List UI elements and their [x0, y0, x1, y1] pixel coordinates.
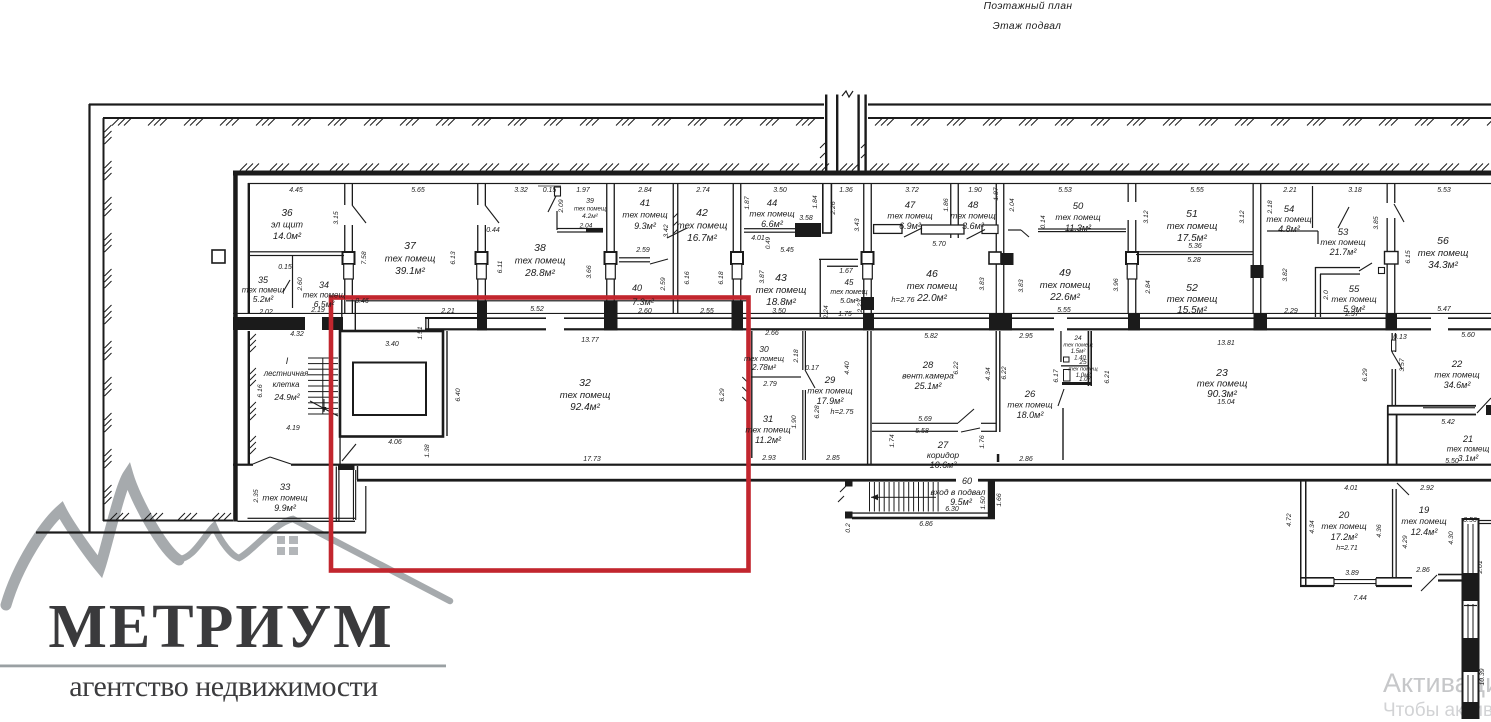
room 41 shelf — [619, 257, 668, 264]
svg-text:34.6м²: 34.6м² — [1444, 380, 1472, 390]
left wall hatch — [250, 334, 256, 454]
svg-text:тех помещ: тех помещ — [1320, 237, 1365, 247]
svg-text:6.40: 6.40 — [455, 388, 462, 401]
svg-text:тех помещ: тех помещ — [1266, 214, 1311, 224]
svg-text:5.55: 5.55 — [1057, 307, 1071, 314]
svg-text:6.29: 6.29 — [719, 388, 726, 401]
svg-text:17.5м²: 17.5м² — [1177, 233, 1207, 244]
svg-text:тех помещ: тех помещ — [560, 390, 611, 401]
door below shaft — [339, 437, 356, 464]
svg-text:тех помещ: тех помещ — [1007, 400, 1052, 410]
svg-text:38: 38 — [534, 242, 546, 254]
svg-text:5.45: 5.45 — [780, 247, 794, 254]
svg-text:18.0м²: 18.0м² — [1017, 410, 1045, 420]
stairs — [308, 358, 338, 417]
door 38 — [485, 205, 499, 223]
svg-text:56: 56 — [1437, 235, 1449, 247]
svg-text:21.7м²: 21.7м² — [1329, 247, 1358, 257]
svg-text:тех помещ: тех помещ — [756, 285, 807, 296]
svg-text:46: 46 — [926, 268, 938, 280]
svg-text:12.4м²: 12.4м² — [1411, 527, 1439, 537]
svg-text:4.01: 4.01 — [751, 235, 765, 242]
svg-text:2.26: 2.26 — [830, 201, 837, 215]
svg-text:0.46: 0.46 — [355, 298, 369, 305]
svg-text:2.78м²: 2.78м² — [751, 363, 776, 372]
room 51 label — [1167, 208, 1218, 244]
svg-text:2.21: 2.21 — [1282, 187, 1297, 194]
svg-text:6.6м²: 6.6м² — [761, 219, 784, 229]
svg-text:2.35: 2.35 — [253, 489, 260, 503]
svg-text:3.85: 3.85 — [1373, 216, 1380, 229]
svg-text:эл щит: эл щит — [271, 220, 303, 230]
svg-text:тех помещ: тех помещ — [574, 207, 606, 213]
room 30/31 divider — [751, 376, 801, 377]
svg-text:3.1м²: 3.1м² — [1458, 453, 1480, 463]
svg-text:3.82: 3.82 — [1282, 268, 1289, 281]
room 44 label — [749, 198, 794, 229]
svg-text:5.2м²: 5.2м² — [253, 294, 275, 304]
svg-text:6.30: 6.30 — [945, 506, 959, 513]
svg-text:2.92: 2.92 — [1419, 485, 1434, 492]
svg-text:13.81: 13.81 — [1217, 340, 1235, 347]
svg-text:34.3м²: 34.3м² — [1428, 260, 1458, 271]
svg-text:41: 41 — [640, 198, 651, 209]
svg-text:0.15: 0.15 — [278, 264, 292, 271]
room 55 walls — [1315, 263, 1385, 317]
svg-text:0.56: 0.56 — [1463, 517, 1477, 524]
svg-text:10.39: 10.39 — [1479, 668, 1486, 685]
door room 33 — [253, 457, 291, 464]
room 39 label — [574, 198, 606, 220]
room 26 label — [1007, 389, 1052, 420]
svg-text:тех помещ: тех помещ — [1434, 370, 1479, 380]
svg-text:21: 21 — [1462, 434, 1473, 444]
room 47/48 partition — [874, 225, 998, 239]
svg-text:2.59: 2.59 — [660, 277, 667, 291]
vent shaft 44/47 — [822, 184, 832, 234]
wall 42/44 — [731, 184, 743, 314]
svg-text:15.5м²: 15.5м² — [1177, 305, 1207, 316]
room 33 walls — [238, 465, 367, 532]
svg-text:1.76: 1.76 — [979, 435, 986, 448]
svg-text:2.74: 2.74 — [695, 187, 710, 194]
svg-text:6.28: 6.28 — [814, 405, 821, 418]
svg-text:6.22: 6.22 — [953, 361, 960, 374]
svg-text:3.42: 3.42 — [663, 224, 670, 237]
svg-text:4.34: 4.34 — [985, 367, 992, 380]
svg-text:тех помещ: тех помещ — [1418, 248, 1469, 259]
svg-text:17.73: 17.73 — [583, 456, 601, 463]
svg-text:тех помещ: тех помещ — [807, 386, 852, 396]
svg-text:1.66: 1.66 — [996, 493, 1003, 506]
svg-text:7.58: 7.58 — [361, 251, 368, 264]
svg-text:2.55: 2.55 — [699, 308, 714, 315]
svg-text:33: 33 — [280, 482, 291, 493]
room 19 label — [1401, 505, 1446, 537]
svg-text:3.6м²: 3.6м² — [962, 221, 985, 231]
svg-text:6.18: 6.18 — [718, 271, 725, 284]
elevator shaft — [340, 331, 448, 437]
svg-text:6.21: 6.21 — [1104, 370, 1111, 383]
wall 22/21 L-wall — [1387, 398, 1491, 464]
svg-text:6.11: 6.11 — [497, 260, 504, 273]
svg-text:2.60: 2.60 — [297, 277, 304, 291]
svg-text:Этаж подвал: Этаж подвал — [993, 21, 1062, 32]
svg-text:19: 19 — [1419, 505, 1430, 516]
svg-text:6.29: 6.29 — [1362, 368, 1369, 381]
svg-text:2.18: 2.18 — [793, 349, 800, 363]
svg-text:0.49: 0.49 — [765, 236, 772, 249]
top band bottom wall - thin face line — [233, 313, 1491, 314]
svg-text:26: 26 — [1024, 389, 1036, 400]
stairwell top wall — [237, 296, 356, 358]
svg-text:28: 28 — [922, 360, 934, 371]
room 40 strip top wall — [346, 300, 750, 301]
svg-text:35: 35 — [258, 275, 269, 285]
svg-text:тех помещ: тех помещ — [1331, 294, 1376, 304]
svg-text:2.93: 2.93 — [761, 455, 776, 462]
wall 29/28 — [867, 331, 872, 464]
svg-text:5.55: 5.55 — [1190, 187, 1204, 194]
watermark — [1383, 668, 1491, 699]
wall 51/54 — [1251, 184, 1264, 314]
svg-text:тех помещ: тех помещ — [677, 221, 728, 232]
wall 48/50 — [996, 184, 1005, 314]
stairwell label — [263, 356, 309, 402]
logo rule — [0, 665, 446, 668]
svg-text:22: 22 — [1451, 359, 1463, 370]
building top wall — [233, 171, 1491, 185]
svg-text:2.66: 2.66 — [764, 330, 779, 337]
svg-text:31: 31 — [763, 414, 774, 425]
svg-text:3.83: 3.83 — [1018, 279, 1025, 292]
wall 54/53 — [1387, 184, 1396, 314]
dimension labels — [253, 186, 1486, 686]
svg-text:15.04: 15.04 — [1217, 399, 1235, 406]
hatch room32 right — [742, 377, 747, 402]
logo windows — [277, 536, 298, 555]
wall 36/37 — [343, 184, 355, 314]
svg-text:тех помещ: тех помещ — [749, 209, 794, 219]
room 31 label — [745, 414, 790, 445]
svg-text:7.3м²: 7.3м² — [632, 297, 655, 307]
svg-text:37: 37 — [404, 240, 417, 252]
site boundary hatch ticks — [105, 119, 1491, 521]
svg-text:2.79: 2.79 — [762, 381, 777, 388]
svg-text:4.06: 4.06 — [388, 439, 402, 446]
room 27 label — [927, 440, 960, 470]
svg-text:2.84: 2.84 — [1145, 280, 1152, 294]
top band bottom wall - band — [233, 301, 1491, 331]
room 47 label — [887, 200, 932, 231]
svg-text:5.70: 5.70 — [932, 241, 946, 248]
svg-text:клетка: клетка — [273, 380, 301, 389]
svg-text:3.66: 3.66 — [586, 265, 593, 278]
svg-text:17.9м²: 17.9м² — [817, 396, 845, 406]
room 53 label — [1320, 227, 1365, 257]
svg-text:1.90: 1.90 — [968, 187, 982, 194]
room 20 label — [1321, 510, 1366, 542]
svg-text:13.77: 13.77 — [581, 337, 600, 344]
svg-text:4.8м²: 4.8м² — [1278, 224, 1301, 234]
svg-text:тех помещ: тех помещ — [622, 210, 667, 220]
wall 28/26 — [961, 331, 1001, 462]
svg-text:1.86: 1.86 — [943, 198, 950, 211]
svg-text:тех помещ: тех помещ — [744, 354, 785, 363]
svg-text:2.18: 2.18 — [1267, 200, 1274, 214]
room 52 label — [1167, 282, 1218, 316]
svg-text:3.12: 3.12 — [1239, 210, 1246, 223]
svg-text:2.04: 2.04 — [1009, 198, 1016, 212]
svg-text:47: 47 — [905, 200, 916, 211]
svg-text:1.67: 1.67 — [839, 268, 854, 275]
chimney duct — [820, 91, 868, 171]
room 45 label — [830, 278, 867, 305]
svg-text:6.9м²: 6.9м² — [899, 221, 922, 231]
room 46 label — [907, 268, 958, 304]
svg-text:4.72: 4.72 — [1286, 513, 1293, 526]
svg-text:h=2.71: h=2.71 — [1336, 545, 1358, 552]
svg-text:1.5м²: 1.5м² — [1071, 349, 1086, 355]
svg-text:22.0м²: 22.0м² — [916, 293, 947, 304]
wall 50/51 — [1126, 184, 1138, 314]
room 60 label — [931, 476, 986, 507]
svg-text:1.36: 1.36 — [839, 187, 853, 194]
svg-text:лестничная: лестничная — [263, 369, 309, 378]
svg-text:5.82: 5.82 — [924, 333, 938, 340]
svg-text:0.13: 0.13 — [1393, 334, 1407, 341]
svg-text:4.34: 4.34 — [1309, 520, 1316, 533]
svg-text:29: 29 — [824, 375, 836, 386]
door 35 — [283, 280, 290, 292]
svg-text:51: 51 — [1186, 208, 1198, 220]
svg-text:24: 24 — [1073, 335, 1082, 342]
svg-text:4.29: 4.29 — [1402, 535, 1409, 548]
svg-text:1.87: 1.87 — [993, 187, 1000, 200]
svg-text:тех помещ: тех помещ — [1055, 212, 1100, 222]
svg-text:5.28: 5.28 — [1187, 257, 1201, 264]
svg-text:45: 45 — [845, 278, 854, 287]
corridor 27 top walls — [872, 409, 996, 432]
svg-text:42: 42 — [696, 207, 708, 219]
svg-text:3.50: 3.50 — [773, 187, 787, 194]
svg-text:2.86: 2.86 — [1018, 456, 1033, 463]
wall 37/38 — [476, 184, 488, 314]
svg-text:20: 20 — [1338, 510, 1350, 521]
svg-text:0.44: 0.44 — [486, 227, 500, 234]
room 34 label — [303, 280, 346, 309]
corridor bottom wall — [233, 464, 1491, 482]
svg-text:90.3м²: 90.3м² — [1207, 389, 1237, 400]
svg-text:30: 30 — [759, 344, 769, 354]
room 24 label — [1063, 335, 1093, 355]
svg-text:5.60: 5.60 — [1461, 332, 1475, 339]
room 25 label — [1068, 359, 1098, 379]
svg-text:вент.камера: вент.камера — [902, 371, 954, 381]
svg-text:5.52: 5.52 — [530, 306, 544, 313]
svg-text:5.42: 5.42 — [1441, 419, 1455, 426]
svg-text:24.9м²: 24.9м² — [273, 392, 300, 402]
logo roof — [175, 519, 450, 601]
svg-text:тех помещ: тех помещ — [907, 281, 958, 292]
svg-text:2.85: 2.85 — [825, 455, 840, 462]
svg-text:0.2: 0.2 — [845, 523, 852, 533]
room 21 label — [1447, 434, 1490, 463]
room 55 label — [1331, 284, 1376, 314]
room 29 label — [807, 375, 852, 406]
svg-text:48: 48 — [968, 200, 979, 211]
svg-text:36: 36 — [281, 208, 293, 219]
svg-text:5.58: 5.58 — [915, 428, 929, 435]
svg-text:тех помещ: тех помещ — [745, 425, 790, 435]
room 51/52 divider — [1136, 251, 1253, 255]
svg-text:4.2м²: 4.2м² — [582, 213, 598, 220]
svg-text:11.2м²: 11.2м² — [755, 435, 782, 445]
door 37 — [352, 205, 366, 223]
svg-text:14.0м²: 14.0м² — [273, 231, 302, 242]
room 40 label — [632, 283, 655, 307]
site boundary inner line — [103, 117, 1491, 522]
svg-text:6.16: 6.16 — [257, 384, 264, 397]
room 56 label — [1418, 235, 1469, 271]
svg-text:11.3м²: 11.3м² — [1065, 223, 1092, 233]
svg-text:тех помещ: тех помещ — [1063, 343, 1093, 349]
svg-text:2.24: 2.24 — [823, 305, 830, 319]
svg-text:6.15: 6.15 — [1405, 250, 1412, 263]
logo — [0, 439, 480, 719]
svg-text:тех помещ: тех помещ — [262, 493, 307, 503]
svg-text:1.75: 1.75 — [838, 311, 852, 318]
room 36 divider — [249, 251, 344, 308]
svg-text:34: 34 — [319, 280, 329, 290]
svg-text:тех помещ: тех помещ — [887, 211, 932, 221]
svg-text:2.86: 2.86 — [1415, 567, 1430, 574]
svg-text:28.8м²: 28.8м² — [524, 268, 555, 279]
svg-text:5.53: 5.53 — [1058, 187, 1072, 194]
site boundary outer line — [36, 103, 1491, 533]
svg-text:9.9м²: 9.9м² — [274, 503, 297, 513]
svg-text:2.0: 2.0 — [1323, 290, 1330, 301]
room 37 label — [385, 240, 436, 277]
svg-text:49: 49 — [1059, 267, 1071, 279]
svg-text:2.84: 2.84 — [637, 187, 652, 194]
room 54 label — [1266, 204, 1311, 234]
svg-text:39.1м²: 39.1м² — [395, 266, 425, 277]
svg-text:0.14: 0.14 — [1040, 215, 1047, 228]
room 50 label — [1055, 201, 1100, 233]
svg-text:5.47: 5.47 — [1437, 306, 1452, 313]
svg-text:39: 39 — [586, 198, 594, 205]
svg-text:9.5м²: 9.5м² — [950, 497, 973, 507]
svg-text:2.23: 2.23 — [857, 299, 864, 313]
red highlight rectangle — [331, 298, 749, 571]
svg-text:6.86: 6.86 — [919, 521, 933, 528]
svg-text:3.43: 3.43 — [854, 218, 861, 231]
room 23 label — [1197, 367, 1248, 400]
svg-text:I: I — [286, 356, 289, 366]
svg-text:4.36: 4.36 — [1376, 524, 1383, 537]
svg-text:10.6м²: 10.6м² — [930, 460, 958, 470]
svg-text:h=2.75: h=2.75 — [830, 407, 854, 416]
svg-text:5.53: 5.53 — [1437, 187, 1451, 194]
wall 41/42 hatch — [673, 213, 678, 234]
room 39 walls — [548, 187, 603, 233]
room 43 label — [756, 272, 807, 308]
svg-text:5.36: 5.36 — [1188, 243, 1202, 250]
svg-text:5.9м²: 5.9м² — [1343, 304, 1366, 314]
svg-text:40: 40 — [632, 283, 642, 293]
svg-text:6.5м²: 6.5м² — [314, 299, 336, 309]
svg-text:6.13: 6.13 — [450, 251, 457, 264]
svg-text:3.40: 3.40 — [385, 341, 399, 348]
svg-text:тех помещ: тех помещ — [515, 256, 566, 267]
svg-text:3.12: 3.12 — [1143, 210, 1150, 223]
svg-text:16.7м²: 16.7м² — [687, 233, 717, 244]
room 33 label — [262, 482, 307, 513]
room 41 label — [622, 198, 667, 231]
svg-text:5.0м²: 5.0м² — [840, 296, 859, 305]
svg-text:4.30: 4.30 — [1448, 531, 1455, 544]
svg-text:тех помещ: тех помещ — [1197, 379, 1248, 390]
room 32 label — [560, 377, 611, 413]
svg-text:3.83: 3.83 — [979, 277, 986, 290]
logo swoosh M — [6, 475, 179, 605]
svg-text:0.17: 0.17 — [805, 365, 820, 372]
rooms 19-20 walls — [1300, 481, 1462, 591]
svg-text:вход в подвал: вход в подвал — [931, 487, 986, 497]
room 49 label — [1040, 267, 1091, 303]
svg-text:60: 60 — [962, 476, 972, 486]
wall room32 right — [748, 331, 753, 458]
room 54 niche — [1267, 186, 1349, 244]
svg-text:2.02: 2.02 — [258, 309, 273, 316]
boundary pilaster box — [212, 250, 225, 263]
room 38 label — [515, 242, 566, 279]
svg-text:2.29: 2.29 — [1283, 308, 1298, 315]
wall 26/23 — [1058, 389, 1064, 460]
svg-text:коридор: коридор — [927, 450, 960, 460]
rooms 24/25 closet — [1060, 331, 1092, 386]
room 30 label — [744, 344, 785, 372]
svg-text:1.84: 1.84 — [812, 195, 819, 208]
svg-text:22.6м²: 22.6м² — [1049, 292, 1080, 303]
svg-text:тех помещ: тех помещ — [1401, 516, 1446, 526]
svg-text:3.32: 3.32 — [514, 187, 528, 194]
svg-text:9.3м²: 9.3м² — [634, 221, 657, 231]
svg-text:2.60: 2.60 — [637, 308, 652, 315]
svg-text:1.07: 1.07 — [1079, 377, 1091, 383]
wall 47/48 — [950, 184, 959, 239]
svg-text:1.97: 1.97 — [576, 187, 591, 194]
svg-text:1.51: 1.51 — [417, 326, 424, 339]
svg-text:1.38: 1.38 — [424, 444, 431, 457]
svg-text:4.45: 4.45 — [289, 187, 303, 194]
svg-text:2.59: 2.59 — [635, 247, 650, 254]
svg-text:92.4м²: 92.4м² — [570, 402, 600, 413]
room 45 walls — [819, 259, 858, 317]
svg-text:6.16: 6.16 — [684, 271, 691, 284]
svg-text:43: 43 — [775, 272, 787, 284]
elevator lobby wall — [425, 317, 477, 331]
room 50 shelf — [1008, 228, 1126, 237]
svg-text:5.69: 5.69 — [918, 416, 932, 423]
svg-text:3.18: 3.18 — [1348, 187, 1362, 194]
svg-text:тех помещ: тех помещ — [1167, 294, 1218, 305]
svg-text:6.22: 6.22 — [1001, 366, 1008, 379]
right wall column — [1463, 519, 1491, 719]
wall 43/46 — [862, 184, 874, 314]
room 42 label — [677, 207, 728, 244]
